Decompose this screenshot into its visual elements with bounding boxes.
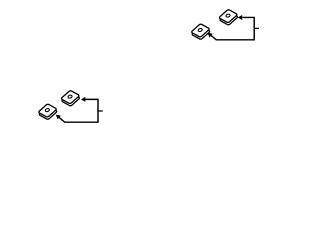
- wire stub on vertical segment: [254, 27, 259, 29]
- node B2 ring: [68, 95, 72, 98]
- node A2 ring: [45, 109, 49, 112]
- wire from node B2 around to node A2: [59, 99, 98, 122]
- wire from node B1 around to node A1: [211, 17, 254, 39]
- arrowhead into node A2: [56, 115, 61, 120]
- node B2 back plate: [62, 93, 79, 106]
- node B1 front plate: [220, 10, 237, 23]
- wire stub on vertical segment: [98, 110, 103, 112]
- node B1 back plate: [220, 12, 237, 25]
- node B2 front plate: [62, 91, 79, 104]
- node A2 front plate: [39, 104, 56, 117]
- arrowhead into node A1: [208, 33, 213, 38]
- node A2 back plate: [39, 107, 56, 120]
- node A1 back plate: [192, 27, 209, 40]
- arrowhead into node B1: [238, 15, 243, 20]
- node A1 ring: [198, 28, 202, 31]
- node B1 ring: [226, 14, 230, 17]
- arrowhead into node B2: [81, 97, 86, 102]
- node A1 front plate: [192, 24, 209, 37]
